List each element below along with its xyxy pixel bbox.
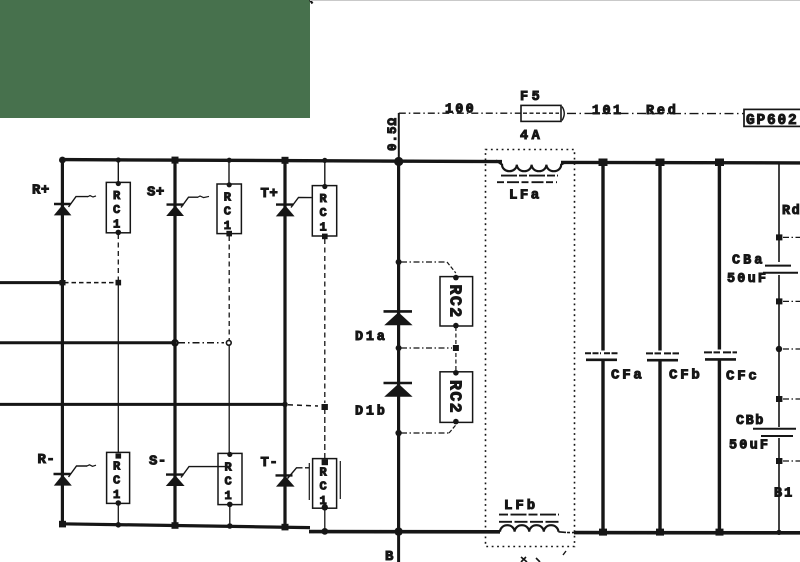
wire: phase T input [0, 404, 318, 406]
node: bleed leg bottom junction [776, 530, 781, 535]
stray mark below dotted box [563, 551, 566, 555]
inductor LFa [496, 160, 565, 182]
node: CFa top bus junction [599, 159, 608, 167]
capacitor CFc [704, 352, 737, 359]
svg-text:LFa: LFa [509, 188, 542, 204]
snubber RC1 c (top, phase T) [312, 160, 336, 403]
wire: phase S input [0, 341, 224, 344]
node: CFc bottom bus junction [716, 529, 724, 536]
svg-text:RC2: RC2 [446, 380, 465, 414]
node: top bus junction leg T [282, 157, 289, 164]
svg-text:R: R [224, 191, 232, 205]
top bus (right segment) [561, 161, 800, 165]
svg-text:LFb: LFb [504, 498, 538, 514]
svg-text:1: 1 [113, 218, 120, 232]
node: junction at 349 [776, 346, 782, 352]
svg-text:50uF: 50uF [729, 439, 770, 454]
svg-text:50uF: 50uF [727, 272, 768, 287]
node: bottom bus junction leg T [282, 524, 289, 531]
node: phase S snubber tap (small circle) [226, 340, 231, 345]
capacitor CBb [753, 429, 796, 436]
label fragment below LFb box [521, 557, 540, 562]
wire: bridge leg S (vertical) [173, 159, 176, 526]
snubber RC1 a (top, phase R) [106, 160, 130, 281]
svg-text:R+: R+ [32, 183, 50, 199]
wire: stub right at 461 [783, 460, 800, 462]
bottom bus (right segment) [309, 530, 500, 534]
LF choke dotted enclosure [486, 150, 575, 547]
diode D1b [384, 383, 413, 397]
node: CFc top bus junction [715, 159, 724, 167]
wire: fuse line (dash-dot right) [567, 112, 744, 114]
node: CFb top bus junction [656, 159, 665, 167]
node: top bus junction leg S [172, 157, 179, 164]
top bus (left segment) [61, 160, 502, 162]
svg-text:1: 1 [225, 489, 232, 503]
node: Rd bottom junction [776, 234, 782, 240]
svg-text:Rd: Rd [782, 204, 800, 219]
capacitor CFb [646, 353, 679, 360]
svg-text:CFb: CFb [669, 368, 703, 384]
svg-text:T+: T+ [261, 186, 279, 202]
svg-text:C: C [225, 475, 232, 489]
svg-text:0.5Ω: 0.5Ω [386, 117, 400, 151]
node: top bus junction RC1b [227, 158, 232, 163]
svg-text:C: C [224, 205, 231, 219]
svg-text:D1a: D1a [355, 330, 388, 345]
node: bottom bus junction leg S [172, 522, 179, 529]
snubber RC1 e (bottom, phase S) [218, 345, 242, 527]
snubber RC1 d (bottom, phase R) [107, 285, 130, 525]
node: phase T junction [282, 402, 288, 408]
svg-text:F5: F5 [520, 90, 543, 105]
diode D1a [384, 311, 413, 325]
wire: fuse line (dash-dot left) [399, 112, 521, 114]
wire: dash-dot to RC2b bottom [401, 432, 449, 434]
svg-text:D1b: D1b [355, 405, 388, 420]
node: bottom bus junction leg R [59, 521, 66, 528]
svg-text:C: C [320, 480, 327, 494]
wire: bridge leg R (vertical) [61, 159, 64, 525]
snubber RC1 b (top, phase S) [217, 160, 241, 341]
thyristor S- [166, 467, 228, 486]
svg-text:1: 1 [113, 488, 120, 502]
svg-text:R: R [113, 189, 121, 203]
wire: dash-dot to RC2 mid [401, 347, 452, 349]
svg-text:CFa: CFa [611, 368, 645, 384]
node: top bus junction RC1a [116, 157, 121, 162]
wire: bridge leg T (vertical) [283, 159, 286, 528]
filter leg a (vertical) [601, 162, 604, 532]
inductor LFb [499, 515, 574, 533]
node: CBa bottom junction [776, 298, 782, 304]
node: RC2 mid square [453, 345, 459, 351]
node: D1a anode junction [396, 259, 402, 265]
svg-text:R: R [225, 461, 233, 475]
svg-text:T-: T- [261, 455, 279, 471]
svg-text:C: C [113, 474, 120, 488]
svg-text:GP602: GP602 [746, 113, 799, 129]
thyristor T+ [276, 197, 312, 216]
node: phase R junction on bridge leg [60, 280, 66, 285]
svg-text:S+: S+ [147, 185, 165, 201]
node: phase R snubber tap (square) [116, 280, 122, 286]
bleed leg (right vertical) [778, 163, 780, 533]
wire: B output below bus [397, 531, 400, 562]
filter leg c (vertical) [718, 162, 721, 532]
svg-text:Red: Red [646, 104, 679, 119]
connector GP602 [744, 109, 800, 128]
svg-text:CBa: CBa [732, 254, 765, 269]
svg-text:1: 1 [224, 219, 231, 233]
svg-text:R: R [320, 466, 328, 480]
bottom bus (left segment) [61, 524, 310, 528]
svg-text:R-: R- [38, 452, 56, 468]
svg-text:B1: B1 [774, 487, 794, 502]
svg-text:S-: S- [149, 454, 167, 470]
node: bottom bus junction RC1d [116, 522, 122, 528]
thyristor R- [54, 465, 97, 486]
node: junction at 461 [776, 458, 782, 464]
svg-text:4A: 4A [520, 129, 543, 144]
snubber RC2 a [440, 275, 473, 329]
wire: positive tap up to fuse line [398, 113, 400, 160]
snubber RC2 b [440, 370, 473, 424]
svg-text:C: C [320, 206, 327, 220]
svg-text:1: 1 [320, 221, 327, 235]
snubber RC1 f (bottom, phase T) [309, 408, 340, 532]
filter leg b (vertical) [658, 162, 661, 532]
svg-text:CFc: CFc [726, 369, 760, 385]
svg-text:B: B [385, 549, 394, 562]
fuse F5 [521, 105, 564, 121]
wire: stub right at 399 [783, 398, 800, 400]
node: CFa bottom bus junction [599, 529, 607, 536]
wire: stub right at 301 [783, 300, 800, 302]
svg-text:100: 100 [445, 103, 476, 118]
node: bottom bus junction RC1f [321, 528, 328, 535]
node: B junction on bottom bus [394, 527, 402, 535]
faint scan border along top edge [310, 0, 800, 2]
thyristor R+ [54, 196, 96, 216]
bottom bus (right of LFb) [574, 531, 800, 535]
wire: phase R input [0, 281, 114, 284]
svg-text:R: R [113, 460, 121, 474]
svg-text:CBb: CBb [736, 414, 765, 429]
wire: freewheel diode leg (vertical) [397, 162, 400, 532]
node: phase S junction (ring) [172, 340, 178, 346]
wire: RC2 inter-box link [455, 327, 457, 371]
node: junction at 399 [776, 396, 782, 402]
node: bottom bus junction RC1e [227, 523, 233, 529]
svg-text:101: 101 [592, 104, 624, 119]
capacitor CFa [585, 353, 618, 360]
green overlay rectangle [0, 0, 310, 118]
node: CFb bottom bus junction [656, 529, 664, 536]
node: bus tap junction [394, 157, 403, 166]
node: D1b anode junction [395, 430, 401, 436]
svg-text:R: R [320, 192, 328, 206]
node: top bus junction RC1c [322, 158, 327, 163]
svg-text:RC2: RC2 [446, 285, 465, 319]
thyristor S+ [166, 196, 209, 216]
wire: stub right at 349 [783, 348, 800, 350]
node: phase T snubber tap (square) [322, 404, 328, 410]
thyristor T- [276, 468, 312, 487]
tick mark at top edge [310, 0, 313, 4]
svg-text:1: 1 [320, 494, 327, 508]
wire: stub right at 237 [783, 236, 800, 238]
node: mid junction between diodes [396, 345, 402, 351]
wire: dash-dot to RC2a top [401, 261, 447, 263]
capacitor CBa [763, 266, 798, 273]
svg-text:C: C [113, 203, 120, 217]
node: top bus junction at leg R [59, 157, 66, 164]
